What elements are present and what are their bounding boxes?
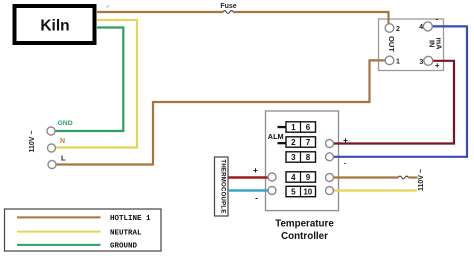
svg-text:6: 6 <box>306 123 311 132</box>
svg-text:OUT: OUT <box>387 36 396 52</box>
svg-text:7: 7 <box>306 138 311 147</box>
terminal row 3|8 <box>286 152 316 162</box>
svg-text:4: 4 <box>291 173 296 182</box>
controller terminal 9 <box>326 174 334 182</box>
terminal GND <box>47 127 55 135</box>
svg-text:-: - <box>344 159 347 168</box>
svg-text:10: 10 <box>303 188 312 197</box>
terminal row 5|10 <box>286 186 316 196</box>
svg-text:+: + <box>253 165 258 175</box>
svg-text:GND: GND <box>58 120 73 127</box>
svg-text:+: + <box>343 135 348 145</box>
wire hotline fuse to 110V stub <box>408 176 417 178</box>
terminal N <box>48 144 56 152</box>
terminal row 1|6 <box>286 122 316 132</box>
controller terminal 10 <box>326 187 334 195</box>
fuse F2 <box>398 176 408 179</box>
svg-text:IN: IN <box>428 40 437 48</box>
svg-text:THERMOCOUPLE: THERMOCOUPLE <box>220 159 227 213</box>
wire ground kiln to GND terminal <box>51 28 123 132</box>
wire hotline fuse to OUT terminal 2 <box>233 12 388 26</box>
svg-text:4: 4 <box>419 24 423 31</box>
terminal 2 <box>385 24 394 33</box>
svg-text:3: 3 <box>291 153 296 162</box>
legend hotline sample <box>17 216 101 218</box>
legend neutral sample <box>17 231 101 233</box>
ALM stub to terminal 1 <box>278 126 287 128</box>
kiln box <box>15 6 95 43</box>
legend box <box>5 209 162 251</box>
svg-text:ALM: ALM <box>268 132 284 141</box>
controller terminal 8 <box>326 153 334 161</box>
wire blue mA minus loop to controller 8 <box>330 26 468 156</box>
wire hotline kiln to fuse <box>97 11 223 13</box>
controller terminal 7 <box>326 140 334 148</box>
svg-text:L: L <box>61 154 66 163</box>
svg-text:110V ~: 110V ~ <box>418 169 425 191</box>
svg-text:3: 3 <box>419 59 423 66</box>
wire thermocouple plus <box>228 176 272 178</box>
svg-text:HOTLINE 1: HOTLINE 1 <box>110 215 151 223</box>
svg-text:NEUTRAL: NEUTRAL <box>110 229 142 237</box>
svg-text:+: + <box>435 61 440 70</box>
svg-text:110V ~: 110V ~ <box>29 131 36 153</box>
wire thermocouple minus <box>228 189 272 191</box>
wire neutral kiln to N terminal <box>52 20 138 148</box>
wire maroon mA plus loop to controller 7 <box>330 61 455 144</box>
svg-text:9: 9 <box>306 173 311 182</box>
fuse F1 <box>223 11 233 14</box>
wire hotline L terminal to OUT terminal 1 <box>52 60 387 164</box>
stray tick <box>107 6 110 8</box>
terminal 3 <box>424 56 433 65</box>
svg-text:8: 8 <box>306 153 311 162</box>
legend ground sample <box>17 244 101 246</box>
temperature controller body <box>266 111 339 211</box>
controller terminal thermocouple plus <box>268 173 276 181</box>
label mA IN <box>428 37 444 50</box>
label Temperature Controller <box>275 219 334 243</box>
terminal 1 <box>385 56 394 65</box>
svg-text:Controller: Controller <box>281 231 328 242</box>
svg-text:Fuse: Fuse <box>220 3 236 10</box>
thermocouple TC1 body <box>215 157 229 216</box>
svg-text:-: - <box>255 193 258 203</box>
terminal row 4|9 <box>286 172 316 182</box>
svg-text:2: 2 <box>291 138 296 147</box>
svg-text:N: N <box>60 138 65 145</box>
wire hotline controller 9 to 110V <box>330 176 399 178</box>
terminal 4 <box>423 22 432 31</box>
ALM stub to terminal 2 <box>278 142 287 144</box>
terminal block mA output module body <box>379 19 444 71</box>
terminal L <box>48 161 56 169</box>
svg-text:1: 1 <box>396 58 400 65</box>
controller terminal thermocouple minus <box>268 187 276 195</box>
terminal row 2|7 <box>286 137 316 147</box>
svg-text:-: - <box>436 14 439 23</box>
wire neutral controller 10 to 110V <box>330 189 418 191</box>
svg-text:1: 1 <box>291 123 296 132</box>
svg-text:2: 2 <box>396 26 400 33</box>
svg-text:5: 5 <box>291 188 296 197</box>
svg-text:GROUND: GROUND <box>110 243 138 251</box>
svg-text:Temperature: Temperature <box>275 219 334 230</box>
svg-text:Kiln: Kiln <box>40 18 69 35</box>
